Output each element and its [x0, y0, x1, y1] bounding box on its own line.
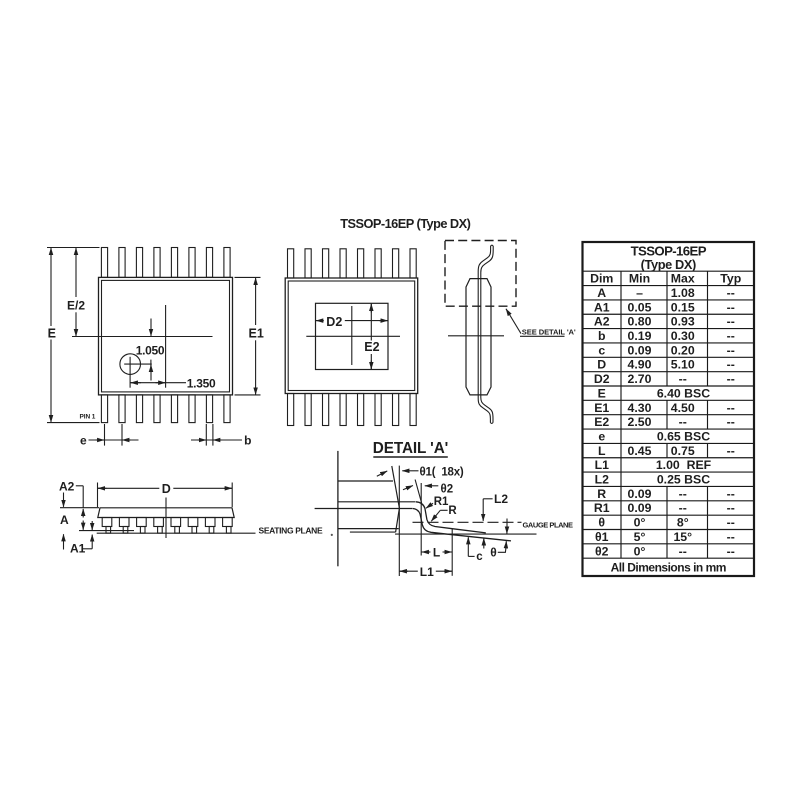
svg-text:L: L: [598, 444, 606, 458]
svg-text:L1: L1: [420, 565, 434, 579]
svg-text:TSSOP-16EP (Type DX): TSSOP-16EP (Type DX): [340, 216, 470, 231]
svg-text:E1: E1: [594, 401, 609, 415]
svg-text:0.45: 0.45: [628, 444, 652, 458]
svg-text:1.08: 1.08: [671, 286, 695, 300]
svg-text:--: --: [679, 372, 687, 386]
svg-text:4.50: 4.50: [671, 401, 695, 415]
svg-text:A: A: [597, 286, 606, 300]
svg-text:e: e: [80, 434, 87, 448]
svg-text:c: c: [476, 551, 483, 563]
svg-text:--: --: [727, 530, 735, 544]
svg-text:0.75: 0.75: [671, 444, 695, 458]
svg-text:R: R: [448, 505, 457, 517]
svg-text:5.10: 5.10: [671, 358, 695, 372]
svg-text:L2: L2: [595, 473, 610, 487]
svg-text:--: --: [727, 329, 735, 343]
svg-text:--: --: [727, 372, 735, 386]
svg-text:0.93: 0.93: [671, 315, 695, 329]
svg-text:θ2: θ2: [441, 483, 454, 495]
svg-text:R1: R1: [434, 496, 449, 508]
svg-text:θ1( 18x): θ1( 18x): [420, 466, 464, 478]
svg-text:Typ: Typ: [720, 272, 741, 286]
svg-text:–: –: [636, 286, 643, 300]
svg-text:(Type DX): (Type DX): [641, 257, 696, 272]
svg-text:SEATING PLANE: SEATING PLANE: [259, 526, 323, 536]
svg-text:L2: L2: [494, 492, 508, 506]
svg-text:2.50: 2.50: [628, 415, 652, 429]
svg-text:5°: 5°: [634, 530, 646, 544]
svg-text:0°: 0°: [634, 544, 646, 558]
svg-text:θ: θ: [490, 546, 497, 560]
svg-text:0.09: 0.09: [628, 501, 652, 515]
svg-text:E1: E1: [249, 326, 264, 340]
svg-text:--: --: [727, 401, 735, 415]
svg-text:0.80: 0.80: [628, 315, 652, 329]
svg-text:b: b: [244, 434, 251, 448]
svg-text:c: c: [598, 343, 605, 357]
svg-text:--: --: [727, 300, 735, 314]
svg-text:--: --: [727, 487, 735, 501]
svg-text:Max: Max: [671, 272, 695, 286]
svg-text:DETAIL 'A': DETAIL 'A': [373, 440, 448, 457]
svg-text:0.25 BSC: 0.25 BSC: [657, 473, 710, 487]
svg-text:--: --: [679, 544, 687, 558]
svg-text:6.40 BSC: 6.40 BSC: [657, 386, 710, 400]
svg-text:--: --: [727, 415, 735, 429]
svg-text:Min: Min: [629, 272, 650, 286]
svg-text:GAUGE PLANE: GAUGE PLANE: [523, 520, 574, 529]
svg-text:E: E: [598, 386, 606, 400]
svg-text:R1: R1: [594, 501, 610, 515]
svg-text:D: D: [162, 482, 171, 496]
svg-text:A2: A2: [594, 315, 610, 329]
svg-text:0.09: 0.09: [628, 343, 652, 357]
svg-text:--: --: [727, 343, 735, 357]
svg-text:θ2: θ2: [595, 544, 609, 558]
svg-text:D: D: [597, 358, 606, 372]
svg-text:8°: 8°: [677, 516, 689, 530]
svg-text:0.19: 0.19: [628, 329, 652, 343]
svg-text:E2: E2: [594, 415, 609, 429]
svg-text:A: A: [60, 513, 69, 527]
svg-text:0.20: 0.20: [671, 343, 695, 357]
svg-text:--: --: [727, 358, 735, 372]
svg-text:--: --: [727, 315, 735, 329]
svg-text:θ: θ: [598, 516, 605, 530]
svg-text:0°: 0°: [634, 516, 646, 530]
svg-text:L: L: [433, 545, 440, 559]
svg-text:L1: L1: [595, 458, 610, 472]
svg-text:0.65 BSC: 0.65 BSC: [657, 429, 710, 443]
svg-text:E/2: E/2: [67, 298, 85, 312]
svg-text:--: --: [727, 544, 735, 558]
svg-text:A2: A2: [59, 479, 75, 493]
svg-text:1.350: 1.350: [187, 376, 216, 390]
svg-text:--: --: [679, 501, 687, 515]
svg-text:E2: E2: [364, 340, 379, 354]
svg-text:0.09: 0.09: [628, 487, 652, 501]
svg-text:D2: D2: [594, 372, 610, 386]
svg-text:E: E: [48, 326, 56, 340]
svg-text:Dim: Dim: [590, 272, 613, 286]
svg-text:15°: 15°: [673, 530, 692, 544]
svg-text:--: --: [727, 444, 735, 458]
svg-text:1.00 REF: 1.00 REF: [656, 458, 712, 472]
svg-text:PIN 1: PIN 1: [80, 414, 96, 421]
svg-text:4.90: 4.90: [628, 358, 652, 372]
svg-text:SEE DETAIL 'A': SEE DETAIL 'A': [522, 328, 576, 337]
svg-text:All Dimensions in mm: All Dimensions in mm: [611, 560, 726, 574]
svg-text:--: --: [727, 286, 735, 300]
svg-text:4.30: 4.30: [628, 401, 652, 415]
svg-text:--: --: [679, 415, 687, 429]
svg-text:e: e: [598, 429, 605, 443]
svg-text:R: R: [597, 487, 606, 501]
svg-text:D2: D2: [326, 315, 342, 329]
svg-text:0.15: 0.15: [671, 300, 695, 314]
svg-text:A1: A1: [594, 300, 610, 314]
svg-text:--: --: [727, 501, 735, 515]
svg-text:1.050: 1.050: [136, 343, 165, 357]
svg-text:b: b: [598, 329, 606, 343]
svg-text:0.05: 0.05: [628, 300, 652, 314]
svg-text:θ1: θ1: [595, 530, 609, 544]
svg-text:2.70: 2.70: [628, 372, 652, 386]
svg-text:0.30: 0.30: [671, 329, 695, 343]
svg-text:--: --: [727, 516, 735, 530]
svg-text:--: --: [679, 487, 687, 501]
